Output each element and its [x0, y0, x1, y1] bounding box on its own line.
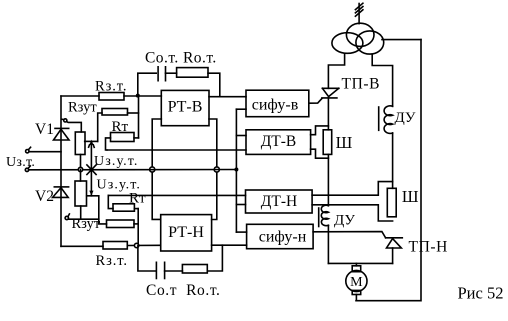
node X crossing at rail	[87, 165, 96, 175]
wire common vertical x236	[235, 109, 237, 232]
svg-text:ДУ: ДУ	[395, 110, 416, 126]
wire ДТ-Н bracket lower to Ш lower bottom	[312, 205, 393, 221]
wire x236 stub to ДТ-В	[236, 135, 246, 137]
svg-text:Ш: Ш	[402, 187, 419, 206]
svg-text:Рис 52: Рис 52	[458, 284, 504, 303]
resistor Rо.т. (lower)	[182, 265, 207, 274]
wire РТ-В left tap jog	[152, 119, 161, 170]
resistor Rз.т. (lower)	[103, 242, 127, 250]
wire branch A below ДУ lower	[327, 225, 329, 263]
wire right bus	[356, 40, 421, 301]
wire Rт lower left lead	[108, 195, 113, 208]
wire main vertical setpoint line	[60, 96, 62, 246]
svg-text:ДТ-В: ДТ-В	[261, 133, 297, 150]
wire transformer left lead to branch A	[328, 54, 344, 88]
wire upper pot bottom to rail	[80, 155, 82, 170]
wire Rзут lower right lead	[134, 223, 138, 225]
terminal above V1	[64, 119, 67, 122]
potentiometer upper	[75, 132, 85, 155]
wire Rз.т. lower to РТ-Н input	[127, 244, 160, 246]
wire x236 bottom corner to сифу-н	[236, 231, 246, 233]
wire x236 top corner to сифу-в	[236, 108, 246, 110]
wire РТ-В right tap jog	[209, 119, 217, 170]
thyristor ТП-В	[322, 87, 338, 89]
block сифу-в	[246, 90, 309, 117]
wire ДТ-Н bracket upper to Ш lower top	[312, 182, 393, 196]
wire main vertical to Rз.т. lower	[61, 245, 103, 247]
resistor Rзут (upper)	[102, 109, 128, 116]
resistor shunt Ш (lower)	[387, 188, 396, 217]
wire branch A thyristor to shunt	[327, 98, 329, 130]
block ДТ-Н	[246, 190, 313, 213]
resistor Rзут (lower)	[107, 220, 135, 228]
wire РТ-Н output to сифу-н	[212, 244, 247, 246]
svg-text:Со.т. Rо.т.: Со.т. Rо.т.	[145, 50, 217, 67]
wire wiper vertical	[90, 141, 92, 195]
wire lower terminal to wiper drop line	[69, 218, 99, 220]
wire branch A shunt to ДУ lower	[327, 154, 329, 205]
diode V2	[54, 186, 68, 188]
wire cap to Rо.т. lower	[165, 270, 183, 272]
svg-text:ДТ-Н: ДТ-Н	[261, 193, 297, 210]
resistor Rз.т. (upper)	[99, 93, 124, 101]
wire RC lower right leg	[207, 245, 222, 271]
resistor Rо.т. (upper)	[177, 68, 208, 78]
svg-text:ДУ: ДУ	[334, 213, 355, 229]
inductor ДУ (upper)	[384, 106, 393, 134]
wire rail Uз.у.т.	[29, 169, 237, 171]
wire transformer right tap to bus	[382, 39, 421, 41]
wire lower input vertical segment	[137, 209, 139, 246]
wire ТП-Н to bottom junction	[392, 248, 394, 263]
wiper arrow lower (points down)	[89, 191, 93, 196]
wire Rт lower right lead	[134, 208, 138, 210]
svg-text:сифу-в: сифу-в	[252, 97, 299, 114]
inductor ДУ (lower)	[321, 205, 328, 225]
wire RC lower feedback left leg	[138, 246, 156, 272]
diode V1	[55, 127, 69, 129]
wire upper terminal to main vertical	[29, 151, 61, 153]
transformer T1 three-phase	[346, 23, 374, 46]
wire terminal to upper pot top	[67, 122, 82, 133]
node open circle left tap on rail	[150, 167, 155, 172]
svg-text:Rз.т.: Rз.т.	[95, 79, 127, 95]
wire lower wiper to Rзут lower	[87, 196, 107, 224]
svg-text:Ш: Ш	[336, 133, 353, 152]
block ДТ-В	[246, 130, 311, 155]
wire branch B to Ш lower	[392, 133, 394, 188]
wire Rзут upper left lead to wiper	[98, 113, 102, 141]
wire РТ-В output to сифу-в	[209, 96, 246, 98]
wire сифу-н gate lead to ТП-Н	[313, 232, 386, 238]
resistor Rт (lower)	[113, 204, 134, 211]
motor M	[355, 263, 357, 265]
node open circle pot tap on rail	[78, 167, 82, 171]
terminal Uз.т. lower	[25, 168, 28, 171]
terminal Uз.т. upper	[26, 150, 29, 153]
op-amp block РТ-В	[161, 90, 209, 125]
wire x236 stub to ДТ-Н	[236, 204, 245, 206]
capacitor Со.т (lower)	[155, 262, 157, 278]
resistor shunt Ш (upper)	[323, 130, 332, 155]
wire tap verticals continue to РТ-Н jogs	[152, 170, 161, 220]
op-amp block РТ-Н	[161, 215, 212, 251]
node rail end dot	[234, 168, 238, 172]
resistor Rт (upper)	[111, 133, 135, 142]
svg-text:Rз.т.: Rз.т.	[96, 253, 128, 269]
wire rail through to lower pot top	[80, 170, 82, 182]
svg-text:Uз.у.т.: Uз.у.т.	[94, 154, 139, 169]
wire Rт upper left lead down to ДТ-В line	[106, 138, 111, 150]
svg-text:РТ-В: РТ-В	[168, 99, 203, 116]
node input dot A	[136, 94, 140, 98]
svg-text:Со.т Rо.т.: Со.т Rо.т.	[146, 282, 221, 299]
wire ДТ-В bracket lower	[311, 149, 329, 158]
wire cap to Rо.т.	[166, 72, 177, 74]
svg-text:М: М	[350, 275, 363, 290]
svg-text:Rт: Rт	[112, 119, 129, 135]
wire Rзут upper right lead	[128, 112, 139, 114]
wire input vertical segment upper	[138, 96, 140, 138]
svg-text:V2: V2	[35, 188, 54, 205]
wire bottom horizontal branch join	[328, 262, 392, 264]
node open circle right tap on rail	[214, 167, 219, 172]
potentiometer lower	[75, 181, 87, 206]
wire Rт upper right lead	[134, 137, 139, 139]
svg-text:Uз.т.: Uз.т.	[6, 155, 35, 170]
svg-text:Rзут: Rзут	[68, 100, 97, 116]
wire ДТ-Н input line	[108, 194, 245, 196]
svg-text:сифу-н: сифу-н	[259, 229, 307, 246]
svg-text:Rт: Rт	[129, 191, 146, 207]
wire RC feedback right leg	[208, 73, 220, 97]
wire lower pot bottom lead	[80, 206, 82, 219]
svg-text:ТП-Н: ТП-Н	[409, 239, 448, 256]
node open circle РТ-Н input	[134, 243, 138, 247]
svg-text:РТ-Н: РТ-Н	[168, 224, 204, 241]
terminal below (Rзут lower)	[65, 216, 68, 219]
svg-text:V1: V1	[35, 121, 54, 138]
capacitor Со.т.	[157, 67, 159, 81]
thyristor ТП-Н	[386, 237, 403, 239]
block сифу-н	[247, 224, 314, 248]
wiper arrow upper (points up at link line)	[85, 140, 98, 142]
wire Rз.т. to РТ-В input	[124, 95, 161, 97]
wire RC feedback left leg	[138, 73, 156, 95]
svg-text:ТП-В: ТП-В	[342, 76, 381, 93]
wire top-left to Rз.т.	[61, 95, 99, 97]
wire сифу-в gate lead to ТП-В	[309, 98, 322, 103]
wire transformer right lead to branch B	[372, 54, 392, 106]
wire ДТ-В bracket upper	[311, 126, 329, 135]
wire ДТ-В output line	[107, 149, 246, 151]
svg-text:Rзут: Rзут	[72, 216, 101, 232]
transformer supply line with 3-phase marks	[358, 4, 360, 24]
